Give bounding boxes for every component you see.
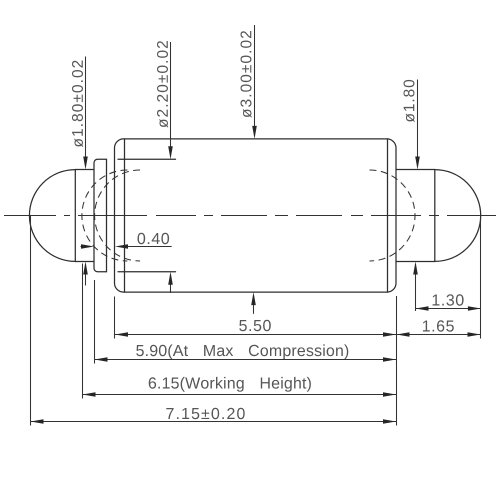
left plunger dome arc	[29, 170, 75, 262]
arrowhead dia 3.00 lower	[251, 292, 256, 305]
bore bottom edge (diameter 2.20 mouth)	[118, 271, 176, 273]
label 5.50	[239, 320, 271, 331]
label 0.40	[138, 233, 170, 244]
arrowhead 7.15 right	[383, 419, 396, 424]
extension line barrel right edge	[396, 296, 398, 426]
extension line flange face	[94, 280, 96, 364]
arrowhead dia 1.80 right lower	[413, 262, 418, 275]
dimension tail 0.40 right	[118, 246, 172, 248]
hidden left plunger dome at max compression (dashed)	[95, 170, 140, 261]
extension line working-height tip	[82, 264, 84, 399]
dimension line 5.90	[95, 359, 397, 361]
center line (horizontal axis, dash-dot)	[4, 215, 496, 217]
label 1.30	[433, 294, 464, 305]
extension line right plunger tip	[480, 218, 482, 339]
label 7.15+/-0.20	[166, 408, 244, 419]
arrowhead 1.65 right	[468, 332, 481, 337]
leader tail dia 2.20 lower	[170, 275, 172, 294]
hidden left plunger dome at working height (dashed)	[82, 170, 127, 261]
extension line barrel left edge	[114, 297, 116, 339]
leader line dia 2.20	[170, 42, 172, 157]
left crimp line on barrel	[124, 139, 126, 292]
arrowhead 6.15 left	[83, 392, 96, 397]
arrowhead 6.15 right	[383, 392, 396, 397]
arrowhead dia 2.20 upper	[168, 146, 173, 159]
left plunger dome flat face	[74, 170, 76, 262]
arrowhead 5.90 left	[95, 357, 108, 362]
arrowhead dia 1.80 right upper	[415, 157, 420, 170]
dimension line 5.50	[115, 334, 396, 336]
arrowhead dia 2.20 lower	[168, 272, 173, 285]
arrowhead 1.30 left	[416, 306, 429, 311]
right plunger dome arc	[435, 170, 481, 262]
arrowhead 7.15 left	[31, 419, 44, 424]
extension line left dome tip	[30, 216, 32, 426]
arrowhead 0.40 left	[81, 244, 94, 249]
label dia 2.20+/-0.02 (flange/bore)	[157, 41, 168, 128]
arrowhead 1.65 left	[397, 332, 410, 337]
leader tail dia 3.00 lower	[253, 295, 255, 314]
label dia 1.80 (right plunger)	[404, 80, 415, 122]
left plunger shaft bottom edge	[75, 261, 94, 263]
leader tail dia 1.80 left lower	[85, 264, 87, 286]
barrel body outline (diameter 3.00 shell)	[115, 139, 397, 292]
dimension line 1.65	[397, 334, 481, 336]
right plunger shaft bottom edge	[396, 261, 435, 263]
label dia 3.00+/-0.02 (barrel)	[241, 31, 252, 118]
label 1.65	[423, 320, 454, 331]
left plunger shaft top edge	[75, 169, 94, 171]
bore top edge (diameter 2.20 mouth)	[118, 158, 176, 160]
arrowhead 1.30 right	[468, 306, 481, 311]
arrowhead dia 1.80 left lower	[83, 262, 88, 275]
arrowhead 5.90 right	[383, 357, 396, 362]
label 5.90 (At Max Compression)	[136, 344, 348, 359]
arrowhead dia 1.80 left upper	[83, 157, 88, 170]
leader line dia 1.80 left	[85, 57, 87, 167]
right plunger shaft top edge	[396, 169, 435, 171]
arrowhead 5.50 right	[383, 332, 396, 337]
dimension line 1.30	[416, 308, 481, 310]
arrowhead 0.40 right	[115, 244, 128, 249]
leader line dia 1.80 right	[417, 80, 419, 167]
label dia 1.80+/-0.02 (left plunger)	[72, 61, 83, 148]
left plunger flange ring (diameter 2.20)	[94, 159, 107, 271]
arrowhead 5.50 left	[115, 332, 128, 337]
leader line dia 3.00	[254, 25, 256, 136]
arrowhead dia 3.00 upper	[252, 126, 257, 139]
label 6.15 (Working Height)	[149, 377, 311, 392]
hidden right plunger dome compressed (dashed)	[370, 170, 416, 261]
dimension line 7.15	[31, 421, 397, 423]
right plunger dome flat face	[434, 170, 436, 262]
dimension tail 0.40 left	[81, 246, 92, 248]
right crimp line on barrel	[387, 139, 389, 292]
dimension line 6.15	[83, 394, 397, 396]
leader tail dia 1.80 right lower / 1.30 left extension	[415, 264, 417, 311]
